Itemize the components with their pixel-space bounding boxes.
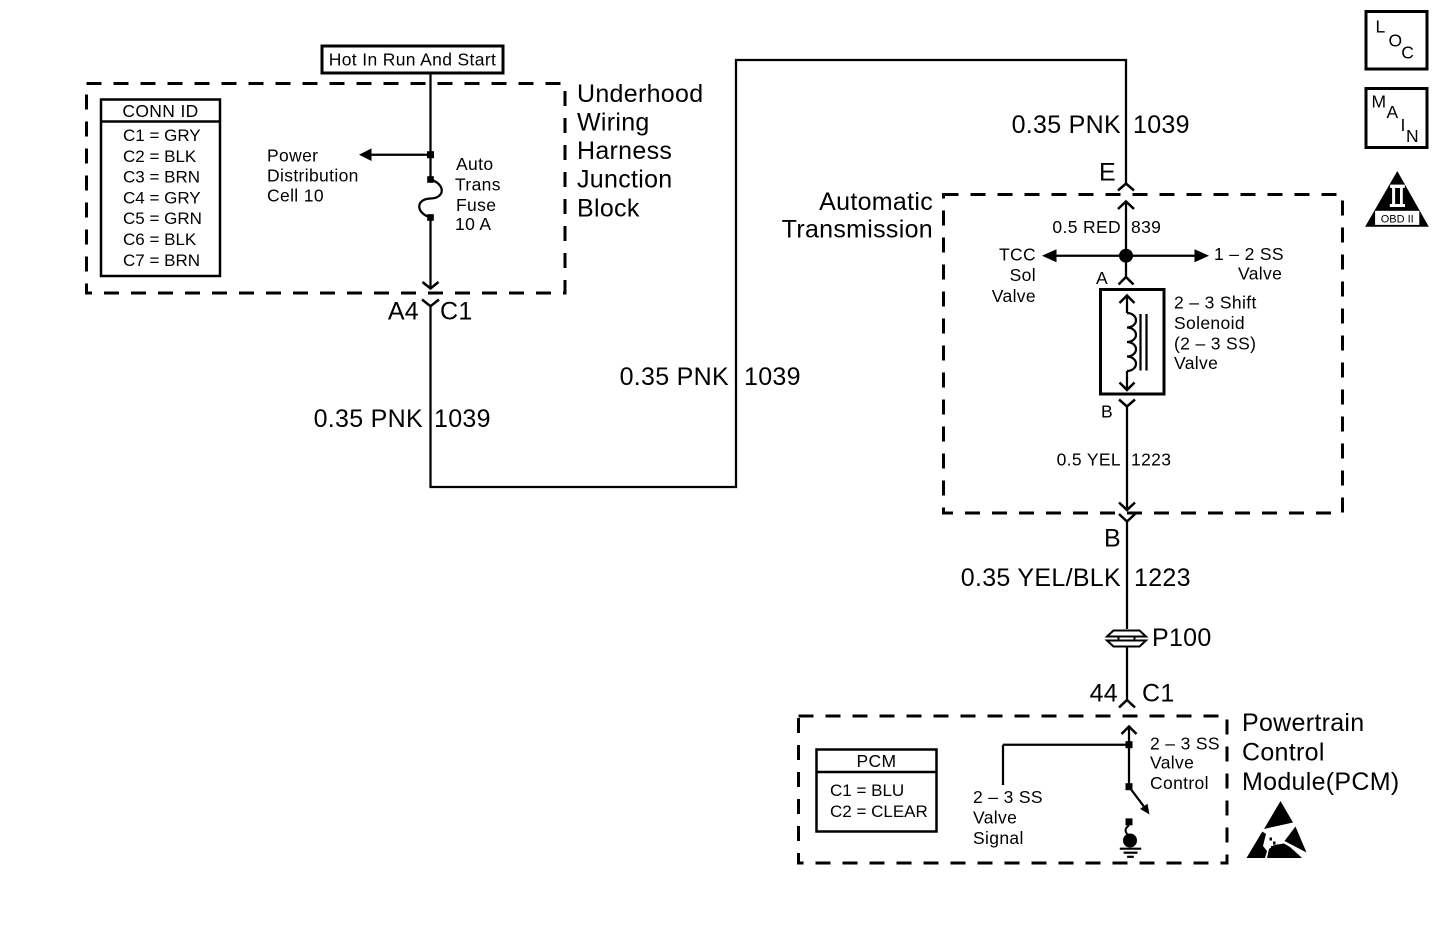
svg-text:2 – 3 SS: 2 – 3 SS [973, 787, 1043, 807]
svg-text:1039: 1039 [1133, 111, 1190, 139]
signal label [973, 787, 1043, 848]
connector C1 terminal A4 [388, 297, 473, 325]
svg-text:C5 = GRN: C5 = GRN [123, 209, 202, 228]
svg-text:0.35 PNK: 0.35 PNK [1012, 111, 1121, 139]
grommet P100 [1105, 624, 1212, 652]
svg-text:C6 = BLK: C6 = BLK [123, 230, 197, 249]
svg-text:Valve: Valve [1238, 264, 1282, 284]
svg-text:2 – 3 SS: 2 – 3 SS [1150, 734, 1220, 754]
svg-text:Control: Control [1150, 773, 1209, 793]
PCM internal male pin up to 44 [1122, 727, 1137, 745]
svg-text:1039: 1039 [744, 363, 801, 391]
svg-text:Powertrain: Powertrain [1242, 709, 1365, 737]
wire from node to solenoid terminal A [1096, 256, 1134, 288]
wire 0.35 PNK 1039 left vertical [314, 306, 491, 487]
svg-text:C4 = GRY: C4 = GRY [123, 188, 201, 207]
svg-text:0.5 YEL: 0.5 YEL [1057, 450, 1121, 470]
svg-text:1223: 1223 [1131, 450, 1171, 470]
svg-text:1039: 1039 [434, 405, 491, 433]
svg-text:Automatic: Automatic [819, 188, 933, 216]
wire male pin up into E and down to node A [1052, 202, 1161, 257]
solenoid coil winding [1127, 313, 1136, 371]
CONN ID table [101, 100, 220, 277]
wire 0.35 PNK 1039 middle vertical [620, 60, 801, 487]
svg-text:2 – 3 Shift: 2 – 3 Shift [1174, 293, 1257, 313]
svg-text:B: B [1104, 524, 1121, 552]
svg-text:Fuse: Fuse [456, 195, 496, 215]
connector terminal B transmission case [1104, 514, 1135, 552]
svg-text:L: L [1376, 16, 1386, 36]
svg-text:Junction: Junction [577, 166, 673, 194]
svg-text:C3 = BRN: C3 = BRN [123, 168, 200, 187]
power distribution label [267, 146, 359, 206]
OBD II symbol [1365, 171, 1429, 227]
svg-text:Trans: Trans [455, 175, 501, 195]
junction block name label [577, 80, 703, 222]
switch SW1 driver [1129, 787, 1150, 815]
automatic transmission dashed box [944, 195, 1343, 514]
svg-text:10 A: 10 A [455, 214, 491, 234]
wire node down to switch [1126, 745, 1133, 791]
svg-text:44: 44 [1090, 679, 1118, 707]
svg-text:Control: Control [1242, 738, 1325, 766]
solenoid core lines [1141, 314, 1147, 371]
svg-text:A: A [1096, 268, 1108, 288]
svg-text:C2 = BLK: C2 = BLK [123, 147, 197, 166]
svg-text:E: E [1099, 158, 1116, 186]
svg-text:A4: A4 [388, 297, 419, 325]
solenoid internal male pin down [1120, 371, 1135, 390]
svg-text:P100: P100 [1152, 624, 1212, 652]
wire horizontal top segment [735, 59, 1127, 61]
wire 0.5 YEL 1223 [1057, 407, 1172, 511]
svg-text:Distribution: Distribution [267, 166, 359, 186]
connector terminal E [1099, 158, 1134, 190]
svg-text:Block: Block [577, 194, 640, 222]
junction block dashed box [87, 84, 566, 294]
svg-text:C1 = GRY: C1 = GRY [123, 126, 201, 145]
connector C1 terminal 44 [1090, 679, 1175, 707]
svg-text:M: M [1372, 92, 1387, 112]
ground G1 internal PCM ground [1120, 818, 1141, 856]
svg-text:I: I [1401, 115, 1406, 135]
svg-text:C: C [1401, 43, 1414, 63]
node junction square in PCM [1126, 741, 1133, 748]
svg-text:Transmission: Transmission [782, 215, 933, 243]
solenoid L1 2-3 shift solenoid box [1101, 290, 1165, 395]
svg-text:Sol: Sol [1010, 265, 1036, 285]
solenoid internal male pin up [1120, 296, 1135, 314]
svg-text:C1: C1 [1142, 679, 1175, 707]
wire 2-3 SS valve signal branch [1003, 745, 1129, 785]
svg-text:Solenoid: Solenoid [1174, 313, 1245, 333]
svg-text:Module(PCM): Module(PCM) [1242, 768, 1400, 796]
svg-text:B: B [1101, 402, 1113, 422]
svg-text:0.5 RED: 0.5 RED [1052, 217, 1121, 237]
ESD sensitive device symbol [1247, 801, 1307, 858]
wire 0.35 PNK 1039 right vertical [1012, 60, 1190, 184]
LOC reference box [1366, 12, 1427, 70]
automatic transmission label [782, 188, 933, 244]
PCM dashed box [799, 716, 1228, 863]
svg-text:CONN ID: CONN ID [122, 101, 198, 121]
MAIN reference box [1366, 89, 1427, 148]
svg-text:0.35 PNK: 0.35 PNK [620, 363, 729, 391]
svg-text:(2 – 3 SS): (2 – 3 SS) [1174, 334, 1256, 354]
svg-text:Valve: Valve [973, 808, 1017, 828]
power label box Hot In Run And Start [322, 46, 503, 73]
solenoid terminal B [1101, 400, 1135, 422]
svg-text:C1 = BLU: C1 = BLU [830, 781, 904, 800]
svg-text:1223: 1223 [1134, 564, 1191, 592]
svg-text:Wiring: Wiring [577, 109, 650, 137]
PCM name label [1242, 709, 1400, 796]
svg-text:OBD II: OBD II [1381, 213, 1414, 225]
svg-text:Underhood: Underhood [577, 80, 703, 108]
wire to 1-2 SS Valve [1126, 244, 1284, 284]
control label [1150, 734, 1220, 794]
svg-text:Hot In Run And Start: Hot In Run And Start [329, 50, 497, 70]
fuse F1 Auto Trans Fuse 10 A [419, 176, 442, 221]
wire from Hot In Run And Start down to fuse [429, 73, 431, 180]
svg-text:C2 = CLEAR: C2 = CLEAR [830, 802, 928, 821]
svg-text:1 – 2 SS: 1 – 2 SS [1214, 244, 1284, 264]
svg-text:Valve: Valve [1174, 353, 1218, 373]
svg-text:0.35 YEL/BLK: 0.35 YEL/BLK [961, 564, 1121, 592]
solenoid name label [1174, 293, 1257, 374]
node junction square at power distribution tap [427, 151, 434, 158]
wire from fuse to connector A4 [423, 218, 439, 289]
wire horizontal bottom segment [429, 486, 737, 488]
wire to power distribution cell [359, 148, 431, 161]
svg-text:C1: C1 [440, 297, 473, 325]
svg-text:839: 839 [1131, 217, 1161, 237]
node splice junction [1119, 249, 1133, 263]
fuse label [455, 154, 501, 234]
svg-text:Valve: Valve [992, 286, 1036, 306]
wire grommet to PCM connector [1126, 647, 1128, 701]
svg-text:0.35 PNK: 0.35 PNK [314, 405, 423, 433]
svg-text:Cell 10: Cell 10 [267, 186, 324, 206]
svg-text:Auto: Auto [456, 154, 493, 174]
PCM ID table [817, 750, 937, 832]
svg-text:N: N [1406, 126, 1419, 146]
wire 0.35 YEL/BLK 1223 [961, 522, 1191, 631]
svg-text:A: A [1387, 102, 1399, 122]
svg-text:Valve: Valve [1150, 753, 1194, 773]
svg-text:Harness: Harness [577, 137, 672, 165]
wire to TCC Sol Valve [992, 245, 1126, 307]
svg-text:TCC: TCC [999, 245, 1036, 265]
svg-text:Signal: Signal [973, 828, 1024, 848]
svg-text:PCM: PCM [857, 751, 897, 771]
svg-text:C7 = BRN: C7 = BRN [123, 251, 200, 270]
svg-text:Power: Power [267, 146, 318, 166]
